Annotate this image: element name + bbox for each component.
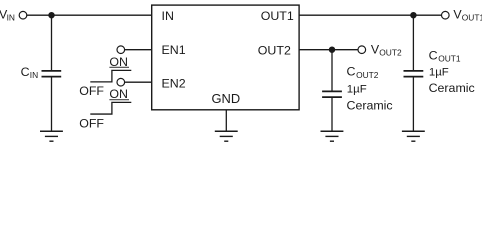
ground GND2 (IC) [215,131,238,141]
junction input node [48,12,54,18]
IC U1 regulator body [152,5,299,110]
wire OUT2 to VOUT2 [299,49,358,51]
ground GND4 (COUT1) [402,131,425,141]
svg-text:Ceramic: Ceramic [429,81,475,95]
wire VIN to IN pin [26,14,151,16]
wire EN1 circle to pin [124,49,152,51]
svg-text:ON: ON [109,87,128,101]
svg-text:1µF: 1µF [429,67,449,79]
svg-text:1µF: 1µF [347,83,367,95]
svg-text:EN2: EN2 [162,77,186,91]
capacitor COUT1 label [429,48,461,63]
svg-text:OUT2: OUT2 [379,48,402,58]
switch S2 ON underline [109,99,129,101]
node VOUT2 label [371,42,402,57]
node VIN terminal circle [19,11,27,19]
svg-text:C: C [347,65,356,79]
wire OUT1 junction down to COUT1 [412,15,414,70]
wire junction down to CIN [51,15,53,70]
capacitor COUT2 [322,91,342,97]
node VIN terminal label [0,8,15,23]
svg-text:OUT1: OUT1 [438,54,461,64]
switch S1 circle (EN1) [117,46,125,54]
svg-text:IN: IN [162,9,174,23]
svg-text:C: C [21,65,30,79]
svg-text:IN: IN [30,70,38,80]
wire EN2 circle to pin [124,81,152,83]
svg-text:OUT2: OUT2 [356,70,379,80]
svg-text:OUT1: OUT1 [462,13,482,23]
capacitor CIN [42,71,62,77]
wire COUT2 to ground [331,97,333,131]
svg-text:OFF: OFF [79,84,104,98]
svg-text:Ceramic: Ceramic [347,98,393,112]
switch S2 waveform step [90,102,131,114]
capacitor COUT1 [404,71,424,77]
svg-text:OUT1: OUT1 [261,9,294,23]
svg-text:EN1: EN1 [162,43,186,57]
wire OUT2 junction down to COUT2 [331,50,333,91]
wire COUT1 to ground [412,77,414,132]
svg-text:OFF: OFF [79,116,104,130]
node VOUT1 label [453,8,482,23]
switch S1 ON underline [109,66,129,68]
svg-text:IN: IN [7,13,15,23]
wire GND pin down [225,110,227,132]
wire CIN to ground [51,77,53,132]
node VOUT1 terminal circle [442,11,450,19]
wire OUT1 to VOUT1 [299,14,442,16]
capacitor COUT2 label [347,65,379,80]
switch S2 circle (EN2) [117,78,125,86]
svg-text:GND: GND [212,91,241,106]
capacitor CIN label [21,65,39,80]
ground GND3 (COUT2) [321,131,344,141]
junction OUT2 node [329,47,335,53]
switch S1 waveform step [90,70,131,82]
node VOUT2 terminal circle [358,46,366,54]
svg-text:ON: ON [109,55,128,69]
svg-text:C: C [429,48,438,62]
ground GND1 (CIN) [40,131,63,141]
svg-text:OUT2: OUT2 [258,43,291,57]
junction OUT1 node [410,12,416,18]
